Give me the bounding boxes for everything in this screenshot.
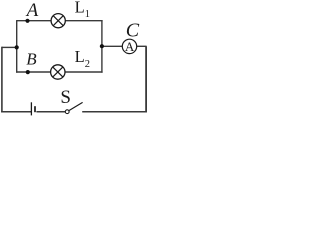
- lamp L1: [51, 14, 65, 28]
- battery cell short plate: [34, 106, 36, 112]
- svg-text:L1: L1: [75, 0, 90, 20]
- wire B-row right segment: [65, 71, 103, 73]
- wire ammeter row right segment: [137, 45, 147, 47]
- wire bottom left of battery: [1, 111, 31, 113]
- wire bottom switch to right: [82, 111, 147, 113]
- ammeter C: [122, 39, 136, 54]
- node right T-junction: [100, 44, 104, 48]
- battery cell long plate: [30, 102, 32, 115]
- wire left outer vertical: [1, 47, 3, 113]
- wire right outer vertical: [145, 46, 147, 112]
- wire top A-row right segment: [65, 20, 102, 22]
- node B: [26, 70, 30, 74]
- wire bottom battery to switch: [36, 111, 65, 113]
- node left T-junction: [15, 45, 19, 49]
- svg-text:S: S: [60, 87, 71, 108]
- svg-text:A: A: [25, 0, 39, 21]
- wire ammeter row left segment: [102, 45, 122, 47]
- svg-text:B: B: [26, 50, 37, 69]
- node A: [25, 19, 29, 23]
- wire B-row left segment: [16, 71, 51, 73]
- wire right inner vertical: [101, 20, 103, 73]
- wire left outer horizontal: [2, 46, 17, 48]
- svg-text:L2: L2: [75, 47, 90, 70]
- wire top A-row left segment: [17, 20, 51, 22]
- switch S lever: [69, 102, 83, 110]
- switch S pivot: [65, 110, 69, 114]
- svg-text:C: C: [126, 19, 140, 41]
- lamp L2: [51, 65, 65, 79]
- svg-text:A: A: [125, 39, 135, 54]
- wire left inner vertical: [16, 20, 18, 73]
